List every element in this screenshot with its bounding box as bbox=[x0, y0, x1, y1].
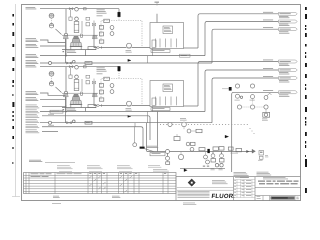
svg-text:FLUOR.: FLUOR. bbox=[211, 193, 236, 200]
company address text bbox=[212, 179, 225, 182]
table column header 4 bbox=[148, 164, 160, 167]
margin mark right bbox=[305, 44, 307, 47]
wire drum side S2 bbox=[81, 79, 83, 91]
gauge assembly box bbox=[259, 151, 264, 156]
revision entries bbox=[234, 179, 236, 182]
feed label C S1 bbox=[26, 43, 37, 46]
wire takeoff 3 S1 bbox=[212, 29, 279, 63]
filter drum S1 bbox=[74, 22, 79, 33]
instrument cluster row 2 bbox=[237, 105, 241, 109]
FLUOR wordmark bbox=[211, 193, 236, 200]
wire stub takeoff 4 bbox=[222, 88, 229, 90]
fold mark A top bbox=[155, 2, 160, 3]
margin mark right bbox=[305, 145, 306, 148]
strainer blackened bbox=[140, 147, 145, 149]
margin mark left bbox=[12, 136, 14, 139]
exchanger unit box S1 bbox=[150, 23, 184, 49]
wire branch x70 S1 bbox=[70, 10, 72, 17]
drawing number bar bbox=[271, 196, 295, 199]
instrument low T1 bbox=[215, 164, 218, 167]
junction node S2 bbox=[65, 111, 67, 113]
wire header D S2 bbox=[40, 111, 205, 113]
branch L2 tag box bbox=[50, 110, 63, 113]
margin mark right bbox=[305, 88, 306, 91]
drum side boxes S1 bbox=[86, 17, 90, 20]
instrument TI 3 bbox=[183, 127, 185, 130]
instrument tap line S2 bbox=[56, 87, 62, 93]
margin mark right bbox=[305, 141, 306, 144]
meter box on line bbox=[236, 148, 242, 151]
wire riser 2 bbox=[146, 123, 148, 152]
transmitter box T1 bbox=[211, 159, 216, 163]
instrument FC S2 bbox=[110, 90, 114, 94]
caption continued A bbox=[234, 171, 246, 174]
wire jog E2 bbox=[134, 123, 136, 127]
drawing title text bbox=[258, 181, 265, 182]
wire unit outlet S1 bbox=[184, 47, 199, 49]
valve V2 S1 bbox=[67, 62, 70, 64]
note block S1 bbox=[97, 9, 105, 12]
offpage connector S2-2 bbox=[279, 69, 298, 72]
foundation right S2 bbox=[92, 94, 97, 97]
margin mark right bbox=[305, 74, 307, 78]
line tag text S2-2 bbox=[263, 67, 273, 70]
header E label S1 bbox=[26, 59, 37, 62]
wire valve column S1 bbox=[93, 21, 95, 27]
meter run S2 bbox=[85, 121, 92, 124]
margin mark right bbox=[305, 14, 307, 19]
inline sight glass S1 bbox=[64, 33, 67, 36]
rev cell bbox=[296, 196, 298, 199]
margin mark left bbox=[12, 32, 14, 36]
titleblock divider 3 bbox=[254, 177, 256, 201]
instrument signal dashed S2 bbox=[118, 71, 120, 79]
titleblock divider 2 bbox=[233, 177, 235, 201]
margin mark right bbox=[305, 28, 306, 30]
margin mark right bbox=[305, 124, 306, 126]
foundation right S1 bbox=[92, 36, 97, 39]
instrument cluster row 1 bbox=[236, 94, 240, 98]
wire feed C S2 bbox=[40, 98, 66, 100]
wire branch L3 bbox=[42, 116, 150, 140]
line tag text S1-2 bbox=[263, 19, 273, 22]
logo rule 2 bbox=[177, 189, 234, 191]
wire feed C S1 bbox=[40, 45, 66, 47]
wire header E S2 bbox=[40, 122, 212, 124]
offpage connector S2-1 bbox=[279, 60, 298, 63]
equipment table frame bbox=[24, 173, 177, 194]
instrument box E S2 bbox=[99, 98, 104, 101]
fitting rect A-line S2 bbox=[84, 66, 87, 68]
valve with actuator flag bbox=[264, 96, 268, 100]
notes heading bbox=[29, 159, 41, 162]
margin mark right bbox=[304, 155, 307, 157]
unit box data plate S1 bbox=[163, 26, 173, 34]
table rows bbox=[24, 174, 177, 176]
titleblock divider 1 bbox=[175, 177, 177, 201]
wire drop S1 bbox=[118, 9, 120, 13]
flow arrow S1 bbox=[128, 59, 131, 61]
margin mark right bbox=[305, 7, 307, 10]
margin mark right bbox=[305, 107, 307, 112]
revision table header bbox=[240, 176, 249, 179]
valve column bowtie S1 bbox=[92, 23, 94, 26]
branch label L6 bbox=[26, 129, 37, 132]
margin mark left bbox=[12, 14, 14, 17]
margin mark left bbox=[12, 44, 14, 47]
fitting circle A-line S1 bbox=[75, 8, 79, 12]
sample box 2 bbox=[213, 147, 219, 150]
unit label bar S1 bbox=[151, 50, 170, 53]
instrument PI upper S1 bbox=[49, 13, 54, 18]
instrument row circle bbox=[190, 147, 194, 151]
table entries bbox=[31, 172, 39, 175]
margin mark right bbox=[305, 25, 306, 27]
instrument box D S2 bbox=[99, 90, 103, 94]
aux box S2 bbox=[88, 105, 96, 108]
disclaimer paragraph bbox=[178, 190, 210, 193]
line tag text S1-3 bbox=[263, 26, 273, 29]
margin mark right bbox=[305, 132, 307, 136]
margin mark left bbox=[12, 115, 13, 117]
wire takeoff 4 S2 bbox=[232, 92, 279, 172]
wire inlet header S1 bbox=[40, 8, 119, 10]
instrument PI lower S1 bbox=[49, 24, 53, 28]
margin mark left bbox=[12, 111, 13, 113]
margin mark left bbox=[12, 23, 14, 26]
instrument box E S1 bbox=[99, 40, 104, 43]
logo rule 1 bbox=[177, 186, 234, 188]
sample box above 2 bbox=[219, 147, 224, 151]
fitting rect A-line S1 bbox=[84, 8, 87, 10]
valve column bowtie S2 bbox=[92, 81, 94, 84]
wire pump suction S1 bbox=[94, 26, 150, 48]
instrument PSV B bbox=[250, 84, 254, 88]
sample box above 3 bbox=[228, 147, 233, 150]
line tag text S2-3 bbox=[263, 75, 273, 78]
instrument box C S2 bbox=[99, 83, 103, 87]
branch label L1 bbox=[26, 104, 37, 107]
pump P2 S1 bbox=[127, 43, 132, 48]
feed label B S2 bbox=[26, 90, 37, 93]
branch L6 text bbox=[48, 124, 54, 127]
margin mark left bbox=[11, 162, 14, 164]
fitting marks bbox=[203, 166, 205, 167]
wire header E S1 bbox=[40, 62, 212, 64]
wire takeoff 2 S2 bbox=[205, 70, 279, 112]
instrument box C S1 bbox=[99, 25, 103, 29]
exchanger unit box S2 bbox=[150, 81, 184, 107]
signal loop dashed S1 bbox=[101, 21, 142, 48]
wire stub to L1 S1 bbox=[156, 14, 158, 23]
wire takeoff 1 S2 bbox=[198, 62, 279, 107]
offpage connector S1-2 bbox=[279, 20, 298, 23]
margin mark right bbox=[305, 33, 307, 37]
instrument PSV A bbox=[235, 84, 239, 88]
instrument signal S2 bbox=[51, 76, 53, 81]
instrument box D S1 bbox=[99, 32, 103, 36]
margin mark left bbox=[12, 126, 14, 129]
wire feed B S2 bbox=[40, 93, 66, 95]
tag smudge T2 bbox=[219, 167, 223, 170]
margin mark left bbox=[12, 102, 14, 107]
titleblock top edge bbox=[176, 176, 301, 178]
branch label L2 bbox=[26, 109, 37, 112]
branch label L5 bbox=[26, 123, 37, 126]
valve V2 S2 bbox=[67, 122, 70, 124]
fitting circle A-line S2 bbox=[75, 66, 79, 70]
instrument FI S2 bbox=[110, 84, 114, 88]
wire main vertical S2 bbox=[65, 67, 67, 112]
vessel skid S1 bbox=[62, 49, 96, 51]
section S1 inlet label bbox=[26, 6, 36, 9]
unit box data plate S2 bbox=[163, 84, 173, 92]
check valve blackened S1 bbox=[118, 12, 121, 17]
margin mark right bbox=[305, 52, 306, 54]
revision table columns bbox=[236, 180, 238, 198]
wire FE drop bbox=[167, 154, 169, 157]
instrument low T2 bbox=[220, 164, 223, 167]
margin mark right bbox=[305, 84, 306, 86]
reducer bbox=[134, 127, 136, 143]
branch L3 text bbox=[48, 113, 54, 116]
scale field bbox=[257, 195, 261, 198]
junction node S1 bbox=[65, 55, 67, 57]
foundation left S1 bbox=[63, 36, 68, 39]
margin mark left bbox=[12, 147, 13, 149]
instrument FE bbox=[166, 150, 170, 154]
flow arrow S2 bbox=[128, 115, 131, 117]
margin mark left bbox=[12, 57, 14, 61]
sample box bbox=[199, 148, 205, 151]
check valve blackened S2 bbox=[118, 66, 121, 71]
margin mark left bbox=[12, 80, 14, 83]
wire drum side S1 bbox=[81, 21, 83, 33]
fitting box x70 S2 bbox=[69, 75, 72, 78]
caption continued B bbox=[257, 171, 269, 174]
flow arrow main bbox=[247, 150, 250, 152]
wire drop S2 bbox=[118, 67, 120, 71]
sheet border frame bbox=[22, 5, 301, 201]
note block S2 bbox=[97, 67, 105, 70]
line tag text S1-1 bbox=[263, 11, 273, 14]
offpage connector S2-3 bbox=[279, 77, 298, 80]
wire unit outlet S2 bbox=[184, 105, 199, 107]
line label on header D1 bbox=[180, 54, 191, 57]
wire slant bbox=[145, 149, 154, 152]
unit label bar S2 bbox=[151, 108, 170, 111]
fluor diamond logo bbox=[188, 179, 195, 186]
pump P1 body S1 bbox=[73, 36, 78, 38]
instrument pair bottom bbox=[204, 155, 208, 159]
vessel inlet pipe S2 bbox=[65, 97, 67, 123]
platform line S1 bbox=[62, 34, 98, 36]
pump label S2 bbox=[126, 107, 132, 110]
margin mark right bbox=[305, 117, 306, 120]
suction fittings S1 bbox=[97, 46, 99, 48]
revision header bar bbox=[235, 176, 249, 179]
instrument TI 2 bbox=[182, 122, 187, 127]
flow arrow bottom bbox=[184, 169, 187, 172]
table cell slashes bbox=[89, 176, 92, 178]
filter drum head S2 bbox=[75, 75, 79, 79]
fitting box x70 S1 bbox=[69, 17, 72, 20]
margin mark right bbox=[305, 95, 307, 99]
margin mark left bbox=[12, 68, 14, 71]
stray dots bbox=[250, 128, 251, 129]
wire bottom secondary bbox=[180, 167, 225, 169]
wire DE link S2 bbox=[147, 112, 149, 123]
instrument pair bbox=[186, 142, 190, 146]
wire box drain S2 bbox=[152, 107, 154, 112]
table header row marks bbox=[89, 172, 91, 175]
gauge assembly base bbox=[260, 156, 264, 159]
label bottom feed bbox=[147, 145, 158, 148]
margin mark right bbox=[305, 188, 307, 193]
platform line S2 bbox=[62, 92, 98, 94]
offpage connector S2-4 bbox=[279, 91, 298, 94]
wire bottom main bbox=[147, 151, 255, 153]
wire main vertical S1 bbox=[65, 9, 67, 56]
analyzer box bbox=[166, 162, 170, 165]
transmitter box T2 bbox=[220, 159, 225, 163]
title header text bbox=[263, 176, 286, 179]
fitting tee S1 bbox=[49, 62, 52, 65]
instrument signal S1 bbox=[51, 18, 53, 23]
unit box internals S1 bbox=[155, 39, 157, 48]
drain mark S1 bbox=[63, 51, 65, 52]
table column headers bbox=[57, 164, 70, 167]
pump P1 body S2 bbox=[73, 94, 78, 96]
margin mark right bbox=[305, 63, 307, 67]
line tag text S2-4 bbox=[263, 89, 273, 92]
filter drum head S1 bbox=[75, 17, 79, 21]
filter drum S2 bbox=[74, 80, 79, 91]
offpage connector S1-1 bbox=[279, 12, 298, 15]
signal loop dashed S2 bbox=[101, 79, 142, 106]
instrument FI S1 bbox=[110, 26, 114, 30]
inline sight glass S2 bbox=[64, 91, 67, 94]
pump nozzle S2 bbox=[81, 92, 83, 95]
vessel skid S2 bbox=[62, 107, 96, 109]
wire header D S1 bbox=[40, 55, 205, 57]
wire branch x70 S2 bbox=[70, 68, 72, 75]
wire takeoff 2 S1 bbox=[205, 22, 279, 56]
instrument square A S1 bbox=[104, 19, 110, 22]
instrument FC S1 bbox=[110, 32, 114, 36]
title fields rule bbox=[255, 195, 301, 197]
feed label B S1 bbox=[26, 37, 37, 40]
vessel tag text S2 bbox=[67, 108, 75, 111]
drain mark S2 bbox=[63, 109, 65, 110]
instrument signal dashed S1 bbox=[118, 17, 120, 21]
header D label S1 bbox=[26, 53, 37, 56]
vessel inlet pipe S1 bbox=[65, 39, 67, 64]
instrument tap line S1 bbox=[56, 29, 62, 35]
vessel tag text S1 bbox=[67, 50, 75, 53]
relay box bbox=[263, 112, 270, 117]
signal trunk dotted bbox=[160, 124, 248, 126]
label bottom secondary bbox=[153, 168, 167, 171]
flow arrow W bbox=[225, 135, 229, 138]
wire riser 4 bbox=[157, 112, 159, 152]
converter box bbox=[196, 129, 202, 132]
foundation left S2 bbox=[63, 94, 68, 97]
title rule bbox=[255, 187, 301, 189]
sheet trim line left bbox=[15, 4, 17, 197]
instrument FT bbox=[166, 156, 170, 160]
sheet footer text mid bbox=[183, 202, 195, 205]
valve blackened bottom bbox=[207, 149, 209, 153]
wire branch L1 bbox=[42, 105, 66, 107]
pump P2 S2 bbox=[127, 101, 132, 106]
field dividers bbox=[262, 196, 264, 201]
valve inline A-line S1 bbox=[69, 8, 71, 10]
wire branch L7 bbox=[42, 130, 58, 132]
table footnote B bbox=[112, 195, 120, 198]
instrument TI 1 bbox=[168, 122, 172, 126]
margin mark right bbox=[305, 159, 307, 167]
instrument square A S2 bbox=[104, 77, 110, 80]
valve dark main bbox=[252, 149, 256, 153]
wire pump suction S2 bbox=[94, 84, 150, 106]
drum side boxes S2 bbox=[86, 75, 90, 78]
pump nozzle S1 bbox=[81, 34, 83, 37]
wire box drain S1 bbox=[152, 49, 154, 56]
margin mark left bbox=[12, 119, 13, 121]
wire feed B S1 bbox=[40, 40, 66, 43]
margin mark left bbox=[12, 94, 13, 96]
branch label L3 bbox=[26, 113, 37, 116]
margin mark right bbox=[305, 56, 306, 59]
wire takeoff 3 S2 bbox=[212, 78, 279, 123]
meter run S1 bbox=[85, 62, 92, 65]
instrument PG bbox=[178, 154, 183, 159]
section S2 inlet label bbox=[26, 64, 36, 67]
wire DE link S1 bbox=[147, 56, 149, 63]
offpage connector S1-3 bbox=[279, 28, 298, 31]
wire drop T2 bbox=[221, 152, 223, 159]
valve inline A-line S2 bbox=[69, 66, 71, 68]
feed label C S2 bbox=[26, 96, 37, 99]
revision table rows bbox=[234, 179, 256, 181]
tag box bottom bbox=[150, 153, 165, 156]
line tag text S2-1 bbox=[263, 59, 273, 62]
wire drop T1 bbox=[212, 152, 214, 159]
margin mark right bbox=[305, 121, 306, 123]
fitting tee S2 bbox=[49, 121, 52, 124]
controller box bbox=[174, 137, 180, 141]
unit box internals S2 bbox=[155, 97, 157, 106]
wire drain S2 bbox=[85, 108, 87, 112]
table footnote A bbox=[53, 195, 59, 198]
aux box S1 bbox=[88, 47, 96, 50]
instrument PI upper S2 bbox=[49, 71, 54, 76]
pump label S1 bbox=[126, 49, 132, 52]
suction fittings S2 bbox=[97, 104, 99, 106]
instrument PI lower S2 bbox=[49, 82, 53, 86]
margin mark left bbox=[12, 85, 13, 87]
wire drain S1 bbox=[85, 50, 87, 56]
table columns bbox=[25, 173, 27, 194]
sheet footer text left bbox=[52, 202, 61, 205]
wire inlet header S2 bbox=[40, 66, 119, 68]
tag smudge T1 bbox=[211, 167, 215, 170]
wire takeoff 1 S1 bbox=[198, 14, 279, 48]
wire valve column S2 bbox=[93, 79, 95, 85]
wire branch L6 bbox=[42, 127, 143, 147]
branch label L4 bbox=[26, 118, 37, 121]
